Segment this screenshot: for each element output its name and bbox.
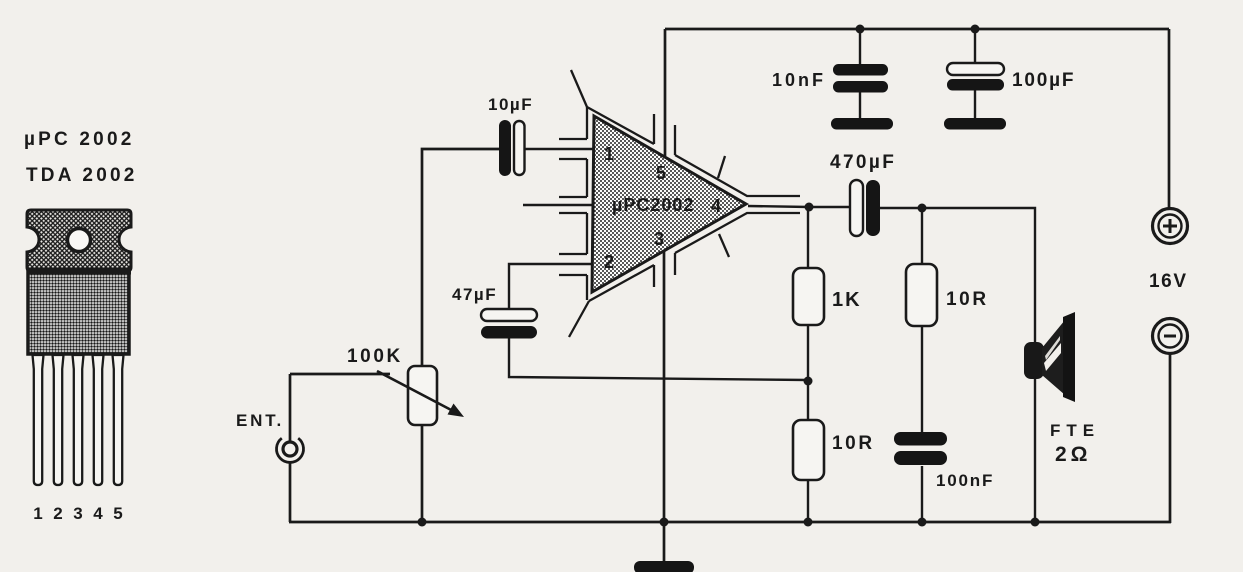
wire: unused middle stub (523, 204, 597, 206)
pin5 slot stubs (654, 114, 675, 155)
wire: 47uF bottom feedback run (509, 338, 808, 380)
potentiometer 100K (377, 366, 464, 425)
node: top rail / 10nF junction (856, 25, 865, 34)
svg-text:5: 5 (656, 163, 668, 183)
wire: ENT horizontal to pot wiper (290, 373, 390, 376)
svg-text:2: 2 (53, 504, 62, 523)
bottom far tick (719, 234, 729, 257)
node: feedback 1K/10R/47uF junction (804, 377, 813, 386)
terminal - 16V (1153, 319, 1188, 354)
wire: pot bottom to rail (421, 425, 424, 522)
node: 470uF / 10R junction (918, 204, 927, 213)
wire: 100nF to rail (921, 466, 923, 522)
node: pot / bottom rail junction (418, 518, 427, 527)
pin numbers (33, 504, 122, 523)
svg-text:100µF: 100µF (1012, 70, 1075, 91)
wire: pin3 to ground rail (663, 250, 666, 522)
terminal + 16V (1153, 209, 1188, 244)
capacitor 10uF (499, 120, 525, 176)
node: top rail / 100uF junction (971, 25, 980, 34)
svg-text:10µF: 10µF (488, 95, 533, 114)
wire: node to 10R lower (807, 381, 809, 420)
resistor 10R right (906, 264, 937, 326)
svg-text:µPC 2002: µPC 2002 (24, 129, 135, 150)
ground bar 100uF (944, 118, 1006, 130)
wire: right vertical to + terminal (1168, 29, 1171, 209)
wire: ground stub (663, 522, 666, 563)
svg-text:FTE: FTE (1050, 421, 1100, 440)
capacitor 100nF (894, 432, 947, 465)
svg-text:3: 3 (73, 504, 82, 523)
svg-text:2Ω: 2Ω (1055, 443, 1092, 466)
wire: pin2 to 47uF (509, 264, 597, 309)
svg-text:TDA 2002: TDA 2002 (26, 165, 138, 186)
wire: 1K bottom to node (807, 325, 809, 381)
svg-text:3: 3 (654, 229, 666, 249)
legs (33, 355, 124, 485)
wire: 1K top (807, 207, 809, 268)
node: 10R lower / bottom rail junction (804, 518, 813, 527)
svg-text:µPC2002: µPC2002 (612, 195, 694, 215)
svg-text:1K: 1K (832, 289, 862, 311)
node: 100nF / bottom rail junction (918, 518, 927, 527)
outer left line segments with lead slots (586, 107, 588, 300)
svg-text:1: 1 (604, 144, 616, 164)
wire: 10nF drop (859, 29, 861, 65)
wire: top supply rail (665, 28, 1169, 31)
node: speaker line / bottom rail junction (1031, 518, 1040, 527)
svg-text:10R: 10R (832, 433, 875, 454)
svg-text:4: 4 (711, 196, 723, 216)
pin3 slot stubs (654, 253, 675, 287)
lead slot stubs pins 1,mid,2 (559, 139, 587, 275)
svg-text:100K: 100K (347, 346, 403, 367)
wire: 470uF right to speaker corner (879, 208, 1035, 522)
wire: 10nF to ground bar (859, 92, 861, 119)
ground bar 10nF (831, 118, 893, 130)
svg-text:4: 4 (93, 504, 103, 523)
svg-text:2: 2 (604, 252, 616, 272)
svg-text:1: 1 (33, 504, 42, 523)
wire: pin5 supply drop (664, 29, 667, 156)
wire: 10uF to op-amp pin 1 (524, 148, 597, 150)
IC package pinout drawing (27, 210, 131, 523)
speaker FTE (1024, 312, 1075, 402)
wire: 10R lower bottom (807, 480, 809, 522)
svg-text:ENT.: ENT. (236, 411, 284, 430)
svg-text:47µF: 47µF (452, 285, 497, 304)
top far tick (718, 156, 725, 178)
capacitor 470uF (850, 180, 880, 236)
outer bottom line with pin3 slot (589, 213, 800, 301)
outer top line with pin5 slot (587, 107, 800, 196)
wire: pot top up and right to 10uF (422, 149, 500, 366)
resistor 1K (793, 268, 824, 325)
wire: 100uF to ground bar (974, 90, 976, 119)
package body (28, 271, 129, 354)
package tab (27, 210, 131, 271)
capacitor 47uF (481, 309, 537, 339)
op-amp U1 uPC2002 (559, 70, 800, 337)
svg-text:16V: 16V (1149, 271, 1188, 292)
svg-text:5: 5 (113, 504, 122, 523)
wire: 100uF drop (974, 29, 976, 64)
capacitor 100uF (947, 63, 1004, 91)
wire: 10R right to 100nF (921, 326, 923, 432)
tab/body separator (27, 268, 131, 275)
wire: ENT down to bottom rail (289, 462, 292, 522)
svg-text:10nF: 10nF (772, 70, 826, 90)
wire: bottom ground rail (289, 521, 1171, 524)
capacitor 10nF (833, 64, 888, 93)
wire: output to 470uF and speaker line (748, 206, 851, 207)
connector ENT. (277, 438, 304, 462)
node: output pin 4 junction (805, 203, 814, 212)
package hole (68, 229, 91, 252)
resistor 10R lower (793, 420, 824, 480)
svg-text:10R: 10R (946, 289, 989, 310)
svg-text:470µF: 470µF (830, 152, 896, 173)
wire: ENT vertical up (289, 374, 292, 443)
wire: right vertical from - terminal to bottom rail (1169, 353, 1172, 523)
ground symbol (634, 561, 694, 572)
node: ground stub / bottom rail junction (660, 518, 669, 527)
corner leads (569, 70, 589, 337)
wire: 10R right top (921, 208, 923, 264)
svg-text:100nF: 100nF (936, 471, 994, 490)
